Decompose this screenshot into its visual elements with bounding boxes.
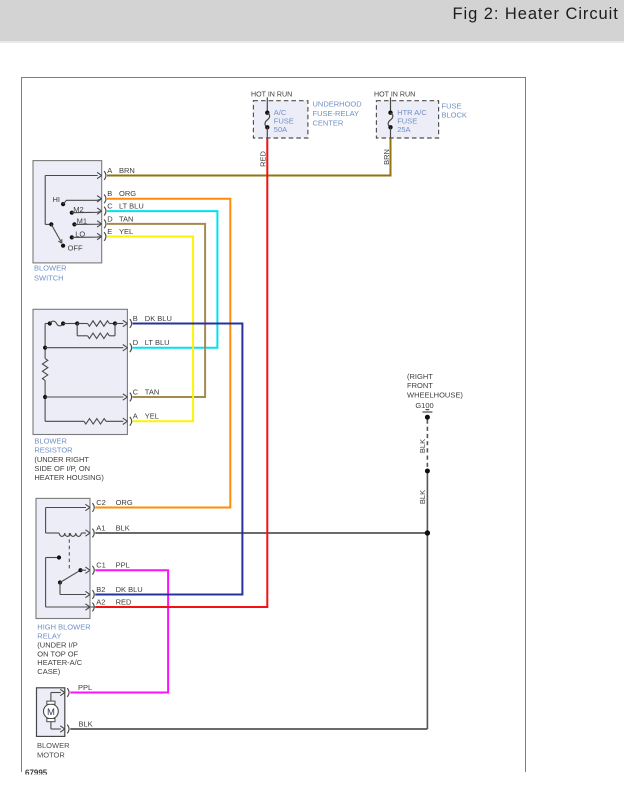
svg-text:C: C <box>133 387 139 396</box>
svg-text:FRONT: FRONT <box>407 381 433 390</box>
svg-text:(UNDER I/P: (UNDER I/P <box>37 641 77 650</box>
svg-text:A2: A2 <box>96 597 105 606</box>
svg-text:BLK: BLK <box>418 439 427 453</box>
svg-text:(UNDER RIGHT: (UNDER RIGHT <box>34 455 89 464</box>
svg-text:CENTER: CENTER <box>313 118 344 127</box>
svg-text:BRN: BRN <box>382 149 391 165</box>
svg-text:UNDERHOOD: UNDERHOOD <box>313 100 363 109</box>
svg-text:HTR A/C: HTR A/C <box>397 108 427 117</box>
svg-text:BLK: BLK <box>79 720 93 729</box>
svg-text:M: M <box>47 707 55 718</box>
svg-text:B: B <box>107 189 112 198</box>
svg-text:RESISTOR: RESISTOR <box>34 446 73 455</box>
svg-text:YEL: YEL <box>119 227 133 236</box>
svg-text:HEATER-A/C: HEATER-A/C <box>37 658 82 667</box>
svg-text:TAN: TAN <box>145 387 159 396</box>
svg-text:BRN: BRN <box>119 166 135 175</box>
svg-text:(RIGHT: (RIGHT <box>407 372 433 381</box>
svg-text:LT BLU: LT BLU <box>119 202 144 211</box>
svg-text:DK BLU: DK BLU <box>116 585 143 594</box>
svg-text:G100: G100 <box>415 401 433 410</box>
svg-text:A1: A1 <box>96 523 105 532</box>
svg-text:A/C: A/C <box>274 108 287 117</box>
svg-text:SWITCH: SWITCH <box>34 273 64 282</box>
svg-text:DK BLU: DK BLU <box>145 314 172 323</box>
svg-text:RED: RED <box>259 151 268 167</box>
svg-text:FUSE: FUSE <box>397 117 417 126</box>
svg-text:Fig 2: Heater Circuit: Fig 2: Heater Circuit <box>453 5 619 23</box>
svg-text:D: D <box>133 338 139 347</box>
svg-text:PPL: PPL <box>116 561 130 570</box>
svg-text:A: A <box>133 412 138 421</box>
svg-text:FUSE: FUSE <box>442 101 462 110</box>
svg-text:HOT IN RUN: HOT IN RUN <box>374 91 415 99</box>
svg-text:HEATER HOUSING): HEATER HOUSING) <box>34 473 104 482</box>
svg-text:B2: B2 <box>96 585 105 594</box>
svg-text:BLK: BLK <box>116 523 130 532</box>
svg-text:TAN: TAN <box>119 214 133 223</box>
svg-text:BLOWER: BLOWER <box>34 437 67 446</box>
svg-text:D: D <box>107 214 113 223</box>
svg-text:SIDE OF I/P, ON: SIDE OF I/P, ON <box>34 464 90 473</box>
svg-text:RELAY: RELAY <box>37 632 61 641</box>
svg-text:ORG: ORG <box>119 189 136 198</box>
svg-text:E: E <box>107 227 112 236</box>
svg-text:CASE): CASE) <box>37 667 60 676</box>
svg-text:A: A <box>107 166 112 175</box>
svg-text:HOT IN RUN: HOT IN RUN <box>251 91 292 99</box>
svg-text:67995: 67995 <box>25 769 48 778</box>
svg-text:OFF: OFF <box>68 243 83 252</box>
svg-text:WHEELHOUSE): WHEELHOUSE) <box>407 390 463 399</box>
svg-text:YEL: YEL <box>145 412 159 421</box>
svg-text:BLOWER: BLOWER <box>37 741 70 750</box>
svg-text:PPL: PPL <box>78 683 92 692</box>
svg-text:BLOWER: BLOWER <box>34 264 67 273</box>
svg-text:C1: C1 <box>96 561 106 570</box>
svg-text:ORG: ORG <box>116 498 133 507</box>
svg-text:B: B <box>133 314 138 323</box>
svg-text:LO: LO <box>75 229 85 238</box>
svg-text:FUSE: FUSE <box>274 117 294 126</box>
svg-text:BLK: BLK <box>418 490 427 504</box>
svg-text:HI: HI <box>53 195 61 204</box>
svg-text:HIGH BLOWER: HIGH BLOWER <box>37 622 91 631</box>
svg-text:FUSE-RELAY: FUSE-RELAY <box>313 109 360 118</box>
svg-text:LT BLU: LT BLU <box>145 338 170 347</box>
svg-text:C: C <box>107 202 113 211</box>
svg-text:MOTOR: MOTOR <box>37 750 65 759</box>
svg-text:50A: 50A <box>274 125 287 134</box>
svg-text:M2: M2 <box>73 205 83 214</box>
svg-text:25A: 25A <box>397 125 410 134</box>
svg-text:BLOCK: BLOCK <box>442 111 467 120</box>
svg-text:C2: C2 <box>96 498 106 507</box>
svg-text:RED: RED <box>116 597 132 606</box>
svg-text:M1: M1 <box>77 216 87 225</box>
